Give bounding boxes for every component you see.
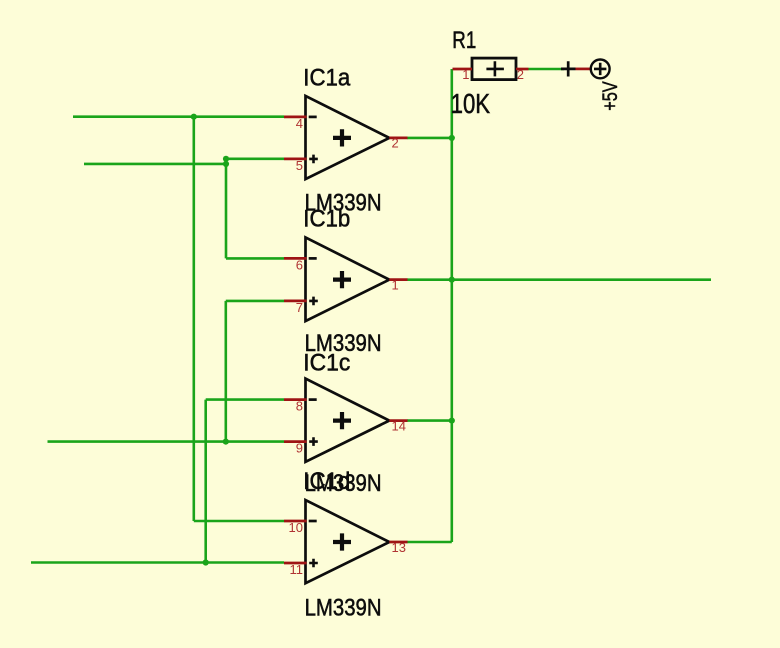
svg-text:7: 7 bbox=[296, 300, 303, 315]
IC1d inverting input marker - bbox=[309, 520, 317, 523]
op-amp IC1a comparator triangle bbox=[306, 96, 390, 179]
resistor R1 body bbox=[472, 58, 516, 80]
IC1a non-inverting input marker + bbox=[309, 155, 318, 164]
IC1c comparator body + symbol bbox=[333, 412, 351, 429]
IC1a output pin 2 stub bbox=[389, 137, 407, 140]
wire to pin 6 (IN2-) bbox=[226, 257, 284, 260]
+5V supply pin stub bbox=[576, 68, 591, 71]
IC1b pin 7 stub (non-inverting in) bbox=[284, 300, 307, 303]
node junction trunk / IC1a out bbox=[449, 135, 455, 141]
node junction wire B / vertical bbox=[223, 161, 229, 167]
IC1d pin 10 stub (inverting in) bbox=[284, 520, 307, 523]
IC1c non-inverting input marker + bbox=[309, 437, 318, 446]
IC1b inverting input marker - bbox=[309, 257, 317, 260]
+5V supply pin cross bbox=[561, 61, 576, 76]
wire IC1c output to trunk bbox=[407, 419, 452, 422]
wire R1 pin2 to +5V supply bbox=[529, 68, 565, 71]
wire vertical from IN1- wire down to pin 10 bbox=[193, 117, 196, 521]
svg-text:R1: R1 bbox=[452, 27, 476, 54]
svg-text:14: 14 bbox=[392, 418, 406, 433]
wire net input B bbox=[84, 163, 226, 166]
svg-text:IC1a: IC1a bbox=[303, 65, 350, 92]
IC1b output pin 1 stub bbox=[389, 278, 407, 281]
R1 internal + symbol bbox=[486, 61, 504, 76]
svg-text:2: 2 bbox=[392, 136, 399, 151]
node junction trunk / IC1c out bbox=[449, 418, 455, 424]
R1 pin 2 stub bbox=[516, 68, 529, 71]
op-amp IC1c comparator triangle bbox=[306, 379, 390, 462]
IC1a pin 5 stub (non-inverting in) bbox=[284, 158, 307, 161]
svg-text:8: 8 bbox=[296, 399, 303, 414]
wire to pin 7 (IN2+) bbox=[226, 300, 284, 303]
IC1b pin 6 stub (inverting in) bbox=[284, 257, 307, 260]
wire net to pin 4 (IN1-) bbox=[73, 115, 284, 118]
svg-text:11: 11 bbox=[290, 562, 304, 577]
svg-text:IC1d: IC1d bbox=[303, 468, 350, 495]
svg-text:6: 6 bbox=[296, 257, 303, 272]
IC1a comparator body + symbol bbox=[333, 129, 351, 146]
IC1d non-inverting input marker + bbox=[309, 559, 318, 568]
svg-text:IC1b: IC1b bbox=[303, 206, 350, 233]
node junction trunk / IC1b out bbox=[449, 277, 455, 283]
wire to pin 5 (IN1+) bbox=[226, 158, 284, 161]
svg-text:2: 2 bbox=[517, 67, 524, 82]
IC1b non-inverting input marker + bbox=[309, 297, 318, 306]
svg-text:+5V: +5V bbox=[598, 81, 622, 111]
wire to pin 10 (IN4-) bbox=[194, 520, 284, 523]
IC1c output pin 14 stub bbox=[389, 419, 407, 422]
node junction pin5 wire / vertical bbox=[223, 156, 229, 162]
IC1d comparator body + symbol bbox=[333, 533, 351, 550]
wire vertical pin 7 down to pin 9 wire bbox=[225, 301, 228, 442]
+5V supply circle + bbox=[594, 63, 606, 75]
R1 pin 1 stub bbox=[453, 68, 473, 71]
svg-text:1: 1 bbox=[392, 277, 399, 292]
wire output trunk vertical bbox=[450, 69, 453, 542]
svg-text:5: 5 bbox=[296, 158, 303, 173]
svg-text:1: 1 bbox=[462, 67, 469, 82]
wire vertical pin5 node to pin 6 bbox=[225, 159, 228, 259]
wire IC1b output long net bbox=[407, 278, 711, 281]
op-amp IC1b comparator triangle bbox=[306, 237, 390, 321]
IC1a inverting input marker - bbox=[309, 116, 317, 119]
node junction on IN1- wire bbox=[191, 114, 197, 120]
IC1d pin 11 stub (non-inverting in) bbox=[284, 562, 307, 565]
IC1c pin 9 stub (non-inverting in) bbox=[284, 440, 307, 443]
wire vertical pin 8 down to pin 11 wire bbox=[204, 400, 207, 563]
svg-text:10K: 10K bbox=[451, 88, 491, 119]
wire IC1d output to trunk bbox=[407, 541, 452, 544]
svg-text:IC1c: IC1c bbox=[303, 350, 350, 377]
+5V supply circle symbol bbox=[591, 60, 610, 79]
svg-text:13: 13 bbox=[392, 540, 406, 555]
wire to pin 8 (IN3-) bbox=[206, 398, 284, 401]
IC1c inverting input marker - bbox=[309, 398, 317, 401]
node junction on pin 9 wire bbox=[223, 439, 229, 445]
IC1a pin 4 stub (inverting in) bbox=[284, 116, 307, 119]
svg-text:4: 4 bbox=[296, 116, 303, 131]
IC1c pin 8 stub (inverting in) bbox=[284, 398, 307, 401]
op-amp IC1d comparator triangle bbox=[306, 500, 390, 583]
svg-text:LM339N: LM339N bbox=[305, 595, 382, 622]
wire net to pin 11 (IN4+) bbox=[31, 561, 284, 564]
wire IC1a output to trunk bbox=[407, 137, 452, 140]
node junction on pin 11 wire bbox=[203, 559, 209, 565]
IC1b comparator body + symbol bbox=[333, 271, 351, 288]
wire net to pin 9 (IN3+) bbox=[48, 440, 285, 443]
svg-text:10: 10 bbox=[289, 520, 303, 535]
svg-text:9: 9 bbox=[296, 441, 303, 456]
IC1d output pin 13 stub bbox=[389, 541, 407, 544]
